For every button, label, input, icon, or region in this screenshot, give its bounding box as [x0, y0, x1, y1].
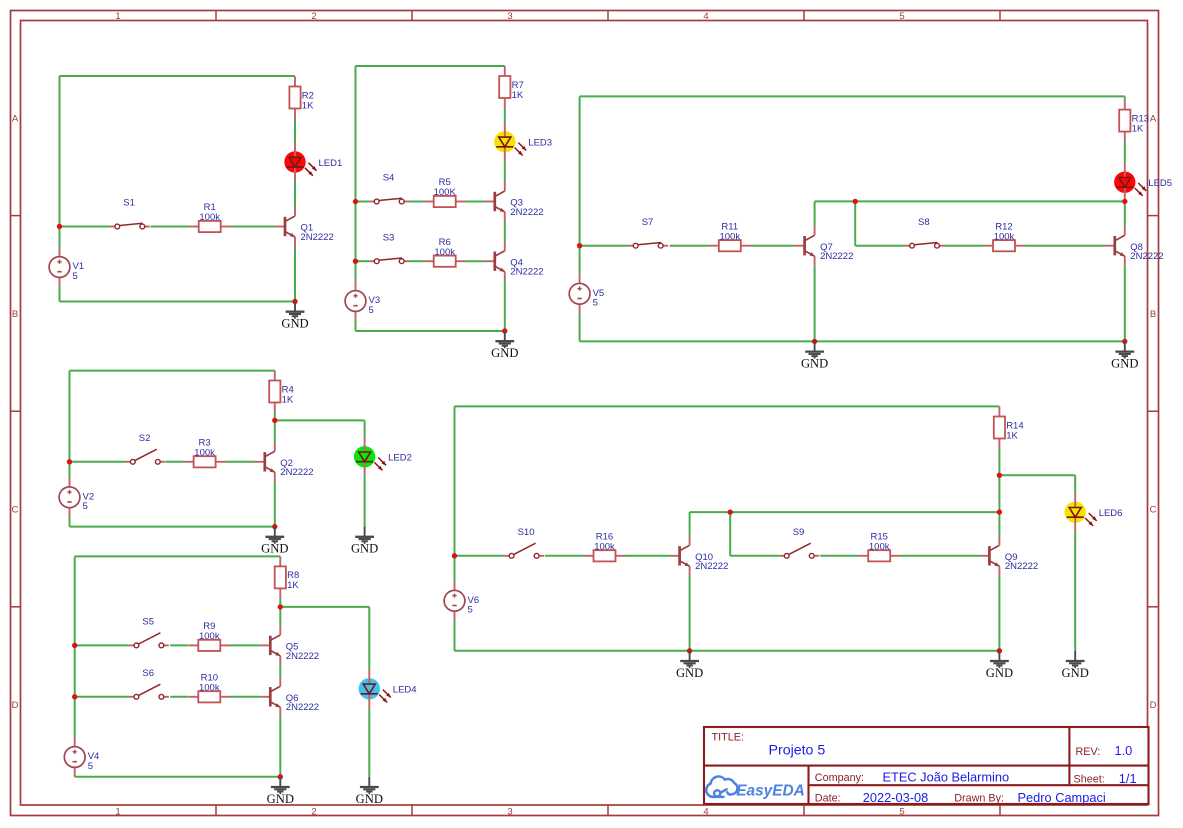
resistor R15 100k — [858, 531, 900, 561]
svg-text:2: 2 — [311, 806, 316, 817]
svg-text:2N2222: 2N2222 — [286, 702, 319, 713]
wire c1 base seg2 — [151, 226, 189, 228]
switch S2 (open) — [125, 433, 165, 464]
wire c4 base1 seg3 — [230, 644, 260, 646]
svg-text:GND: GND — [261, 542, 288, 556]
wire c6 node1-LED6 horizontal — [999, 474, 1075, 476]
wire c4 node-Q5 — [279, 607, 281, 626]
node c5 base junction — [577, 243, 582, 248]
svg-text:LED1: LED1 — [319, 158, 343, 169]
svg-text:A: A — [12, 113, 19, 124]
resistor R8 1K — [275, 556, 300, 598]
wire c2 R4-node — [274, 413, 276, 421]
svg-text:LED5: LED5 — [1148, 178, 1172, 189]
svg-text:2N2222: 2N2222 — [1130, 251, 1163, 262]
wire c6 base1 seg1 — [455, 555, 505, 557]
svg-text:3: 3 — [507, 11, 512, 22]
wire c3 top rail — [356, 65, 505, 67]
wire c5 top rail — [580, 95, 1125, 97]
LED LED1 — [284, 143, 342, 182]
svg-text:100k: 100k — [994, 231, 1015, 242]
svg-text:B: B — [12, 309, 18, 320]
node c6 LED6 junction — [997, 473, 1002, 478]
svg-text:1.0: 1.0 — [1115, 743, 1133, 758]
transistor Q7 2N2222 NPN — [795, 226, 854, 266]
node c6 Q9 ground junction — [997, 648, 1002, 653]
resistor R6 100k — [424, 237, 466, 267]
svg-text:ETEC João Belarmino: ETEC João Belarmino — [883, 770, 1010, 785]
wire c4 LED4 drop — [368, 607, 370, 669]
wire c3 base1 seg2 — [409, 201, 424, 203]
switch S6 (open) — [129, 668, 169, 699]
svg-text:100k: 100k — [594, 542, 615, 553]
wire c3 base1 seg3 — [466, 201, 485, 203]
wire c2 base seg2 — [166, 461, 184, 463]
resistor R2 1K — [289, 77, 314, 119]
title block logo cell divider — [807, 766, 809, 804]
svg-text:1K: 1K — [302, 100, 314, 111]
svg-text:LED6: LED6 — [1099, 508, 1123, 519]
transistor Q10 2N2222 NPN — [670, 536, 729, 576]
voltage source V1 5V — [49, 248, 84, 287]
ground — [491, 331, 518, 360]
svg-text:Sheet:: Sheet: — [1074, 773, 1105, 785]
resistor R13 1K — [1119, 100, 1149, 142]
resistor R1 100k — [189, 202, 231, 232]
switch S5 (open) — [129, 617, 169, 648]
node c4 collector junction — [278, 604, 283, 609]
voltage source V6 5V — [444, 581, 479, 620]
node c5 bus junction S8 — [853, 199, 858, 204]
wire c4 base1 seg1 — [75, 644, 129, 646]
svg-text:100k: 100k — [869, 542, 890, 553]
resistor R9 100k — [188, 621, 230, 651]
wire c5 Q7 collector — [814, 201, 816, 225]
wire c3 left rail lower — [355, 321, 357, 332]
node c3 ground junction — [502, 328, 507, 333]
svg-text:TITLE:: TITLE: — [712, 731, 744, 743]
svg-text:1K: 1K — [282, 394, 294, 405]
svg-text:5: 5 — [83, 501, 88, 512]
svg-text:4: 4 — [703, 11, 708, 22]
wire c2 node-Q2 — [274, 420, 276, 441]
frame row ticks left — [11, 216, 21, 607]
ground — [356, 777, 383, 806]
wire c6 left rail upper — [454, 406, 456, 581]
LED LED4 — [359, 669, 417, 708]
svg-text:1/1: 1/1 — [1119, 771, 1137, 786]
frame row letters right — [1150, 113, 1157, 711]
LED LED6 — [1065, 493, 1123, 532]
svg-text:1K: 1K — [287, 580, 299, 591]
wire c5 base2 seg2 — [945, 245, 983, 247]
svg-text:GND: GND — [267, 792, 294, 806]
wire c2 LED2-gnd — [364, 476, 366, 526]
wire c6 node1-node2 — [998, 475, 1000, 512]
wire c3 R7-LED3 — [504, 108, 506, 122]
title block row divider 1 — [704, 765, 1149, 767]
resistor R12 100k — [983, 221, 1025, 251]
transistor Q1 2N2222 NPN — [275, 207, 334, 247]
voltage source V4 5V — [64, 738, 99, 777]
svg-text:2: 2 — [311, 11, 316, 22]
switch S4 (closed) — [369, 173, 409, 204]
node c6 Q10 ground junction — [687, 648, 692, 653]
node c2 ground junction — [272, 524, 277, 529]
node c6 bus junction Q9 — [997, 509, 1002, 514]
wire c5 R13 top stub — [1124, 96, 1126, 99]
wire c2 base seg3 — [226, 461, 255, 463]
svg-text:100k: 100k — [199, 631, 220, 642]
svg-text:1K: 1K — [512, 90, 524, 101]
wire c6 Q10 emitter-gnd — [689, 576, 691, 651]
node c4 ground junction — [278, 774, 283, 779]
wire c3 Q4-gnd — [504, 281, 506, 331]
svg-text:D: D — [12, 700, 19, 711]
voltage source V2 5V — [59, 478, 94, 517]
svg-text:2N2222: 2N2222 — [820, 251, 853, 262]
LED LED2 — [354, 437, 412, 476]
ground — [801, 341, 828, 370]
ground — [986, 651, 1013, 680]
wire c2 top rail — [70, 370, 275, 372]
wire c6 LED6 drop — [1074, 475, 1076, 492]
svg-text:D: D — [1150, 700, 1157, 711]
wire c5 base2 seg1 — [855, 245, 904, 247]
wire c3 base1 seg1 — [356, 201, 370, 203]
svg-text:Projeto 5: Projeto 5 — [769, 743, 826, 759]
node c4 base2 junction — [72, 694, 77, 699]
node c1 base junction — [57, 224, 62, 229]
wire c4 node-LED4 horizontal — [280, 606, 369, 608]
wire c1 emitter-gnd — [294, 247, 296, 302]
node c6 base junction — [452, 553, 457, 558]
node c5 bus junction LED5 — [1122, 199, 1127, 204]
wire c4 bottom rail — [75, 776, 281, 778]
wire c3 base2 seg2 — [409, 260, 424, 262]
svg-text:5: 5 — [468, 605, 473, 616]
wire c6 collector bus — [690, 511, 1000, 513]
wire c3 bottom rail — [356, 330, 505, 332]
wire c1 top rail — [60, 75, 296, 77]
svg-text:EasyEDA: EasyEDA — [736, 782, 804, 799]
svg-text:S6: S6 — [142, 668, 154, 679]
resistor R5 100K — [424, 177, 466, 207]
switch S8 (closed) — [905, 217, 945, 248]
ground — [281, 302, 308, 331]
node c1 ground junction — [292, 299, 297, 304]
svg-text:S5: S5 — [142, 617, 154, 628]
svg-text:5: 5 — [899, 806, 904, 817]
svg-text:LED3: LED3 — [528, 138, 552, 149]
resistor R4 1K — [269, 371, 294, 413]
node c5 Q7 ground junction — [812, 339, 817, 344]
switch S9 (open) — [779, 527, 819, 558]
svg-text:5: 5 — [593, 298, 598, 309]
frame row letters left — [12, 113, 19, 711]
svg-text:100K: 100K — [434, 187, 457, 198]
node c3 base2 junction — [353, 259, 358, 264]
wire c5 left rail lower — [579, 313, 581, 341]
ground — [676, 651, 703, 680]
transistor Q4 2N2222 NPN — [485, 241, 544, 281]
wire c1 base seg1 — [60, 226, 110, 228]
wire c4 LED4-gnd — [368, 708, 370, 777]
svg-text:GND: GND — [356, 792, 383, 806]
wire c1 base seg3 — [231, 226, 275, 228]
wire c3 Q3-Q4 — [504, 222, 506, 242]
wire c5 Q8 emitter-gnd — [1124, 266, 1126, 342]
resistor R16 100k — [584, 531, 626, 561]
frame column numbers top — [115, 11, 904, 22]
wire c5 base2 seg3 — [1025, 245, 1105, 247]
svg-text:S4: S4 — [383, 173, 395, 184]
switch S3 (closed) — [369, 232, 409, 263]
wire c3 base2 seg3 — [466, 260, 485, 262]
svg-text:S1: S1 — [123, 198, 135, 209]
frame row ticks right — [1148, 216, 1159, 607]
wire c6 top rail — [455, 405, 1000, 407]
frame column ticks bottom — [216, 805, 1000, 816]
wire c5 bottom rail — [580, 340, 1125, 342]
svg-text:100k: 100k — [199, 683, 220, 694]
transistor Q9 2N2222 NPN — [979, 536, 1038, 576]
wire c6 S9 tap vertical — [729, 512, 731, 556]
wire c4 left rail lower — [74, 776, 76, 778]
title block outer box — [704, 727, 1149, 804]
svg-text:Company:: Company: — [815, 772, 864, 784]
switch S1 (closed) — [110, 198, 150, 229]
resistor R11 100k — [709, 221, 751, 251]
wire c4 base1 seg2 — [170, 644, 188, 646]
svg-text:S9: S9 — [793, 527, 805, 538]
svg-text:GND: GND — [351, 542, 378, 556]
svg-text:1K: 1K — [1006, 430, 1018, 441]
wire c4 top rail — [75, 555, 281, 557]
svg-text:5: 5 — [369, 305, 374, 316]
voltage source V3 5V — [345, 282, 380, 321]
svg-text:4: 4 — [703, 806, 708, 817]
wire c5 Q7 emitter-gnd — [814, 266, 816, 342]
wire c6 Q9 collector — [998, 512, 1000, 536]
resistor R14 1K — [994, 407, 1024, 449]
svg-text:GND: GND — [1111, 357, 1138, 371]
svg-text:REV:: REV: — [1076, 746, 1101, 758]
svg-text:Drawn By:: Drawn By: — [954, 792, 1004, 804]
wire c1 R2-LED1 — [294, 119, 296, 143]
wire c4 Q5-Q6 — [279, 665, 281, 676]
wire c5 S8 tap vertical — [854, 201, 856, 245]
svg-text:100k: 100k — [194, 448, 215, 459]
svg-text:GND: GND — [986, 666, 1013, 680]
svg-text:100k: 100k — [719, 231, 740, 242]
resistor R3 100k — [184, 437, 226, 467]
svg-text:2N2222: 2N2222 — [1005, 561, 1038, 572]
wire c5 base1 seg1 — [580, 245, 629, 247]
transistor Q5 2N2222 NPN — [260, 625, 319, 665]
svg-text:C: C — [1150, 505, 1157, 516]
svg-text:2N2222: 2N2222 — [695, 561, 728, 572]
wire c6 left rail lower — [454, 620, 456, 651]
svg-text:GND: GND — [676, 666, 703, 680]
title block row divider 2 — [809, 784, 1149, 786]
wire c2 base seg1 — [70, 461, 126, 463]
wire c6 bottom rail — [455, 650, 1000, 652]
svg-text:2022-03-08: 2022-03-08 — [863, 790, 928, 805]
svg-text:2N2222: 2N2222 — [510, 207, 543, 218]
wire c4 base2 seg1 — [75, 696, 129, 698]
voltage source V5 5V — [569, 274, 604, 313]
node c4 base1 junction — [72, 643, 77, 648]
svg-text:100k: 100k — [199, 212, 220, 223]
ground — [1111, 341, 1138, 370]
wire c5 base1 seg3 — [751, 245, 795, 247]
wire c5 collector bus — [815, 200, 1125, 202]
wire c2 left rail lower — [69, 517, 71, 527]
wire c5 left rail upper — [579, 96, 581, 274]
frame column numbers bottom — [115, 806, 904, 817]
svg-text:100k: 100k — [434, 247, 455, 258]
switch S7 (closed) — [628, 217, 668, 248]
svg-text:B: B — [1150, 309, 1156, 320]
svg-text:S7: S7 — [642, 217, 654, 228]
wire c2 LED2 drop — [364, 420, 366, 437]
wire c1 LED1-Q1 — [294, 182, 296, 207]
wire c4 R8-node — [279, 598, 281, 607]
wire c3 base2 seg1 — [356, 260, 370, 262]
wire c4 base2 seg2 — [170, 696, 188, 698]
svg-text:S3: S3 — [383, 232, 395, 243]
wire c6 Q10 collector — [689, 512, 691, 536]
wire c4 left rail upper — [74, 556, 76, 737]
wire c3 LED3-Q3 — [504, 161, 506, 181]
svg-text:GND: GND — [1062, 666, 1089, 680]
transistor Q2 2N2222 NPN — [255, 442, 314, 482]
svg-text:1K: 1K — [1132, 123, 1144, 134]
svg-text:C: C — [12, 505, 19, 516]
switch S10 (open) — [504, 527, 544, 558]
wire c1 left rail upper — [59, 76, 61, 248]
svg-text:3: 3 — [507, 806, 512, 817]
transistor Q8 2N2222 NPN — [1105, 226, 1164, 266]
svg-text:GND: GND — [281, 317, 308, 331]
ground — [261, 527, 288, 556]
resistor R7 1K — [499, 66, 524, 108]
ground — [351, 527, 378, 556]
resistor R10 100k — [188, 672, 230, 702]
svg-text:1: 1 — [115, 806, 120, 817]
node c6 bus junction S9 — [728, 509, 733, 514]
wire c6 base1 seg3 — [626, 555, 670, 557]
wire c1 left rail lower — [59, 287, 61, 302]
wire c2 left rail upper — [69, 371, 71, 478]
LED LED5 — [1114, 163, 1172, 202]
wire c5 R13-LED5 — [1124, 142, 1126, 163]
svg-text:2N2222: 2N2222 — [286, 651, 319, 662]
wire c2 emitter-gnd — [274, 482, 276, 527]
node c2 base junction — [67, 459, 72, 464]
wire c6 base2 seg3 — [900, 555, 979, 557]
wire c5 base1 seg2 — [670, 245, 709, 247]
wire c1 bottom rail — [60, 301, 296, 303]
svg-text:Pedro Campaci: Pedro Campaci — [1018, 790, 1106, 805]
wire c2 node-LED2 horizontal — [275, 419, 365, 421]
svg-text:1: 1 — [115, 11, 120, 22]
wire c5 Q8 collector — [1124, 201, 1126, 225]
svg-text:S8: S8 — [918, 217, 930, 228]
transistor Q3 2N2222 NPN — [485, 182, 544, 222]
svg-text:GND: GND — [491, 346, 518, 360]
wire c6 base1 seg2 — [545, 555, 584, 557]
svg-text:GND: GND — [801, 357, 828, 371]
wire c6 base2 seg1 — [730, 555, 779, 557]
svg-text:LED4: LED4 — [393, 685, 417, 696]
svg-text:2N2222: 2N2222 — [301, 232, 334, 243]
svg-text:5: 5 — [899, 11, 904, 22]
svg-text:A: A — [1150, 113, 1157, 124]
wire c6 R14-node1 — [998, 449, 1000, 476]
wire c2 bottom rail — [70, 526, 275, 528]
wire c6 Q9 emitter-gnd — [998, 576, 1000, 651]
svg-text:2N2222: 2N2222 — [510, 267, 543, 278]
svg-text:S2: S2 — [139, 433, 151, 444]
transistor Q6 2N2222 NPN — [260, 677, 319, 717]
svg-text:S10: S10 — [518, 527, 535, 538]
ground — [267, 777, 294, 806]
node c5 Q8 ground junction — [1122, 339, 1127, 344]
svg-text:Date:: Date: — [815, 792, 841, 804]
frame column ticks top — [216, 11, 1000, 21]
wire c4 base2 seg3 — [230, 696, 260, 698]
LED LED3 — [494, 122, 552, 161]
node c3 base1 junction — [353, 199, 358, 204]
title block rev/sheet column divider — [1068, 727, 1070, 785]
svg-text:5: 5 — [88, 761, 93, 772]
wire c4 Q6-gnd — [279, 717, 281, 777]
svg-text:2N2222: 2N2222 — [280, 467, 313, 478]
wire c3 left rail upper — [355, 66, 357, 282]
ground — [1062, 651, 1089, 680]
svg-text:LED2: LED2 — [388, 453, 412, 464]
EasyEDA logo cloud icon — [706, 776, 737, 796]
node c2 collector junction — [272, 418, 277, 423]
wire c6 base2 seg2 — [820, 555, 858, 557]
wire c6 LED6-gnd — [1074, 532, 1076, 651]
svg-text:5: 5 — [73, 271, 78, 282]
